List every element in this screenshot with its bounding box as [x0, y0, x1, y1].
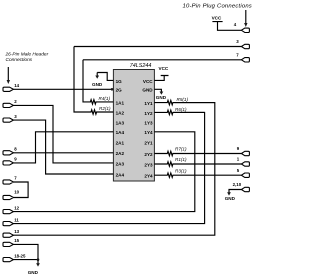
- VCC symbol right of IC: [154, 66, 168, 81]
- svg-text:1A1: 1A1: [116, 100, 125, 105]
- wire B to plug pin 7: [83, 59, 241, 61]
- IC pin names left column: [116, 79, 125, 178]
- svg-text:11: 11: [14, 217, 19, 222]
- svg-text:1A4: 1A4: [116, 130, 125, 135]
- resistor R3 on 2Y4: [154, 168, 241, 177]
- header pin 10: [3, 189, 20, 199]
- ground symbol bottom left: [28, 260, 40, 275]
- ground symbol at plug 2,10: [225, 190, 242, 201]
- svg-text:R1(1): R1(1): [175, 157, 187, 162]
- svg-text:1Y1: 1Y1: [144, 101, 153, 106]
- junction at 2G pin: [111, 88, 114, 91]
- svg-text:R7(1): R7(1): [175, 147, 187, 152]
- IC U1 74LS244 body: [113, 70, 154, 182]
- header pin 9: [3, 157, 17, 165]
- wire pin7 to pin10: [13, 182, 28, 198]
- IC pin names right column: [142, 79, 153, 179]
- wire pin2 to 2A3: [13, 105, 113, 162]
- svg-text:R6(1): R6(1): [175, 107, 187, 112]
- svg-text:74LS244: 74LS244: [130, 63, 152, 69]
- junction dot: [37, 258, 40, 261]
- resistor R7 on 2Y2: [154, 147, 241, 156]
- resistor R4 on 1A1: [83, 60, 113, 104]
- svg-text:2,10: 2,10: [233, 182, 242, 187]
- svg-text:VCC: VCC: [159, 66, 169, 71]
- header pin 7: [3, 176, 17, 184]
- svg-text:18-25: 18-25: [14, 253, 26, 258]
- header pin 14: [3, 83, 20, 91]
- svg-text:VCC: VCC: [212, 15, 222, 20]
- header pin 11: [3, 217, 19, 225]
- svg-text:1A2: 1A2: [116, 110, 125, 115]
- svg-text:10: 10: [14, 189, 19, 194]
- svg-text:2A3: 2A3: [116, 161, 125, 166]
- svg-text:2A1: 2A1: [116, 140, 125, 145]
- wire pin12 from 1Y4: [13, 132, 194, 212]
- svg-text:1G: 1G: [116, 79, 123, 84]
- svg-text:2Y4: 2Y4: [144, 173, 153, 178]
- svg-text:26-Pin Male Header: 26-Pin Male Header: [5, 52, 49, 58]
- svg-text:GND: GND: [156, 95, 167, 100]
- wire pin13 from R5: [13, 103, 214, 236]
- svg-text:1Y4: 1Y4: [144, 130, 153, 135]
- svg-text:GND: GND: [142, 88, 153, 93]
- resistor R1 on 2Y3: [154, 157, 241, 166]
- wire pin9 to 1A4: [13, 132, 113, 163]
- svg-text:Connections: Connections: [6, 57, 33, 63]
- wire A to plug pin 3: [74, 46, 241, 48]
- svg-text:2G: 2G: [116, 88, 123, 93]
- svg-text:2Y2: 2Y2: [144, 152, 153, 157]
- svg-text:R5(1): R5(1): [177, 97, 189, 102]
- header pin 3: [3, 114, 17, 122]
- GND symbol right of IC: [154, 89, 166, 100]
- wire pin14 to 2G: [13, 88, 113, 90]
- VCC symbol top right: [212, 15, 242, 30]
- svg-text:R4(1): R4(1): [99, 96, 111, 101]
- svg-text:R3(1): R3(1): [175, 168, 187, 173]
- svg-text:2Y3: 2Y3: [144, 162, 153, 167]
- svg-text:13: 13: [14, 229, 19, 234]
- svg-text:10-Pin Plug Connections: 10-Pin Plug Connections: [183, 3, 252, 9]
- arrow to header pin 14: [7, 67, 10, 84]
- svg-text:15: 15: [14, 238, 19, 243]
- svg-text:GND: GND: [92, 82, 103, 87]
- header pin 13: [3, 229, 20, 237]
- svg-text:VCC: VCC: [143, 79, 153, 84]
- header pin 18-25: [3, 253, 26, 261]
- plug pin 3: [236, 39, 249, 49]
- arrow to plug pin 4: [244, 10, 247, 27]
- plug pin 1: [237, 157, 250, 167]
- svg-text:2A2: 2A2: [116, 151, 125, 156]
- header pin 12: [3, 205, 20, 213]
- svg-text:12: 12: [14, 205, 19, 210]
- resistor R2 on 1A2: [74, 47, 113, 115]
- wire pin11 from R6: [13, 112, 204, 223]
- svg-text:2A4: 2A4: [116, 172, 125, 177]
- plug pin 7: [236, 53, 249, 63]
- header pin 15: [3, 238, 20, 246]
- wire pin3 to 2A4: [13, 120, 113, 174]
- wire GND to 1G pin: [97, 73, 113, 81]
- svg-text:1Y3: 1Y3: [144, 121, 153, 126]
- svg-text:GND: GND: [225, 196, 236, 201]
- wire pin15 down to junction: [13, 244, 38, 259]
- wire pin8 to 2A2: [13, 152, 113, 154]
- svg-text:1A3: 1A3: [116, 120, 125, 125]
- plug pin 9: [237, 146, 250, 156]
- resistor R5 on 1Y1: [154, 97, 214, 105]
- svg-text:14: 14: [14, 83, 19, 88]
- svg-text:R2(1): R2(1): [99, 106, 111, 111]
- ground symbol left of IC (to 1G): [92, 73, 103, 88]
- plug pin 4: [234, 22, 250, 33]
- resistor R6 on 1Y2: [154, 107, 204, 115]
- header pin 2: [3, 99, 17, 107]
- header pin 8: [3, 147, 17, 155]
- plug pin 5: [237, 168, 250, 178]
- label: 26-Pin Male Header Connections: [5, 52, 49, 64]
- svg-text:2Y1: 2Y1: [144, 141, 153, 146]
- svg-text:1Y2: 1Y2: [144, 111, 153, 116]
- plug pin 2,10: [233, 182, 250, 192]
- svg-text:GND: GND: [28, 270, 39, 275]
- wire pin18-25 to junction: [13, 259, 38, 261]
